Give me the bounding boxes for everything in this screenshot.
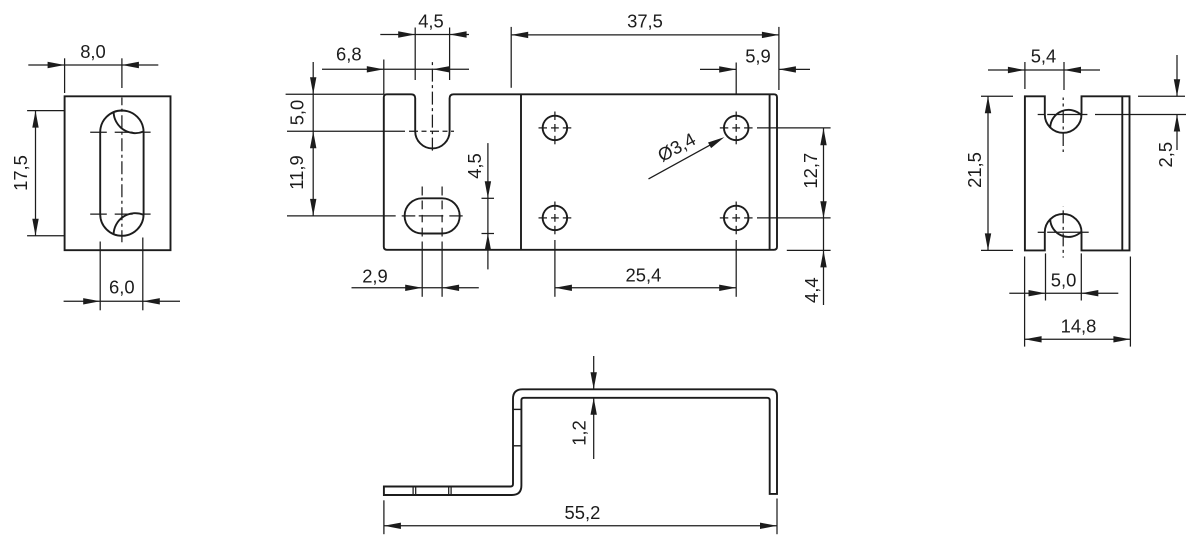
svg-text:4,4: 4,4	[801, 277, 822, 303]
svg-text:21,5: 21,5	[964, 152, 985, 188]
svg-text:2,5: 2,5	[1155, 142, 1176, 168]
svg-text:11,9: 11,9	[286, 155, 307, 189]
svg-text:Ø3,4: Ø3,4	[654, 128, 699, 165]
svg-text:2,9: 2,9	[362, 266, 388, 287]
svg-text:55,2: 55,2	[565, 502, 601, 523]
svg-text:4,5: 4,5	[464, 153, 485, 179]
svg-text:4,5: 4,5	[418, 11, 444, 32]
svg-text:5,0: 5,0	[287, 100, 308, 126]
svg-text:37,5: 37,5	[627, 11, 663, 32]
svg-text:5,9: 5,9	[745, 46, 771, 67]
svg-text:6,0: 6,0	[109, 277, 135, 298]
svg-text:17,5: 17,5	[10, 155, 31, 191]
svg-text:14,8: 14,8	[1061, 315, 1097, 336]
svg-text:12,7: 12,7	[800, 153, 821, 189]
svg-text:5,0: 5,0	[1051, 270, 1077, 291]
svg-text:8,0: 8,0	[80, 41, 106, 62]
svg-text:6,8: 6,8	[336, 44, 362, 65]
svg-text:1,2: 1,2	[569, 420, 590, 446]
svg-text:25,4: 25,4	[626, 265, 662, 286]
svg-text:5,4: 5,4	[1031, 46, 1057, 67]
